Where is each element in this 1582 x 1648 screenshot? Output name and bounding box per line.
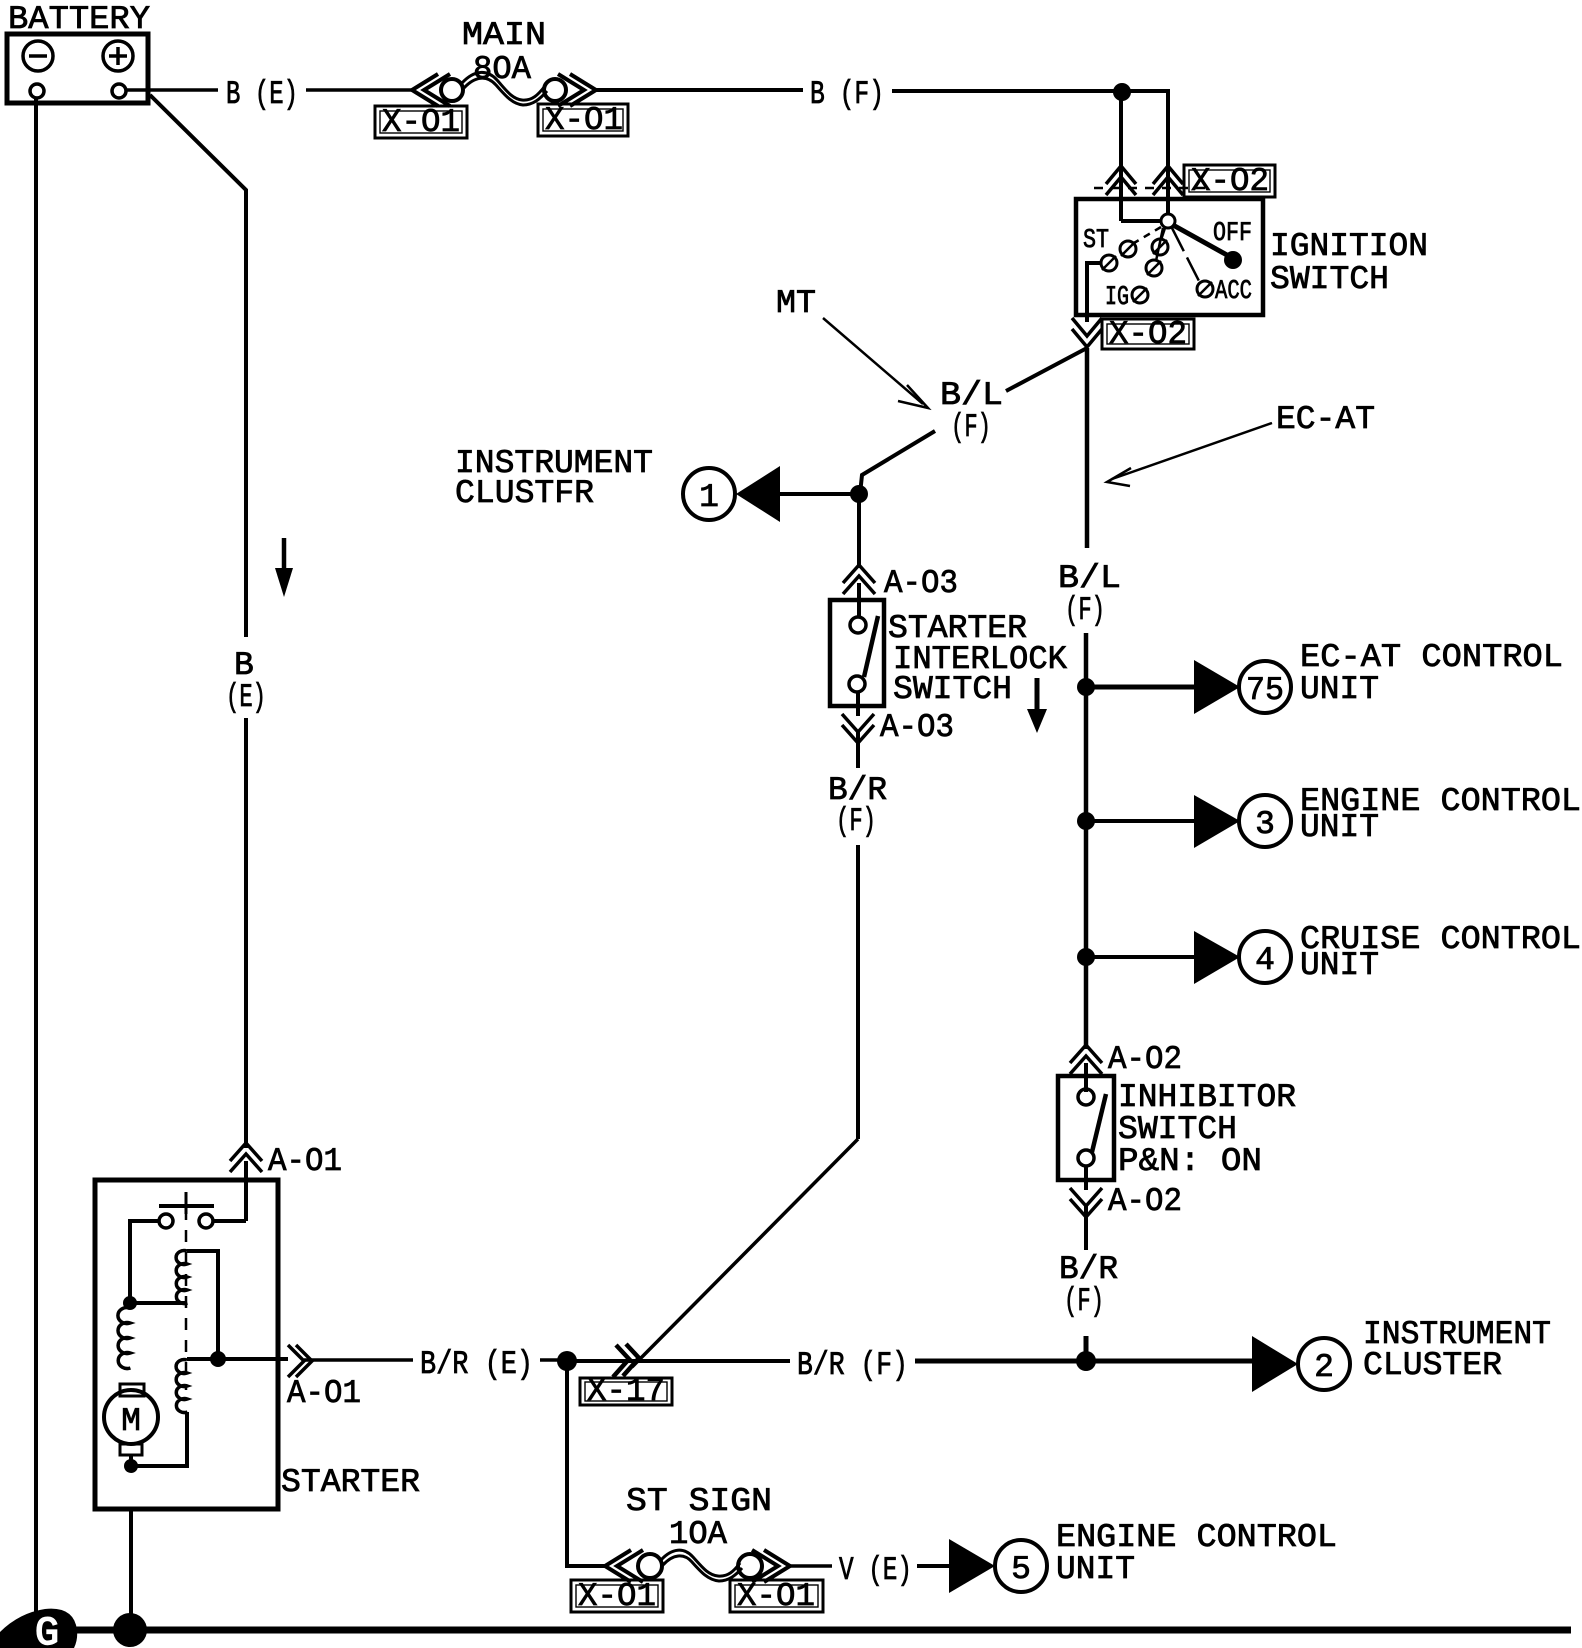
wire down from junction to ignition switch <box>1119 92 1123 221</box>
svg-text:X-O1: X-O1 <box>737 1578 815 1615</box>
svg-text:A-O2: A-O2 <box>1108 1183 1182 1220</box>
top contact <box>850 617 866 633</box>
ignition switch common node <box>1161 214 1175 228</box>
connector X-02 chevrons (bottom of ignition switch) <box>1072 318 1102 336</box>
svg-text:V (E): V (E) <box>839 1552 912 1589</box>
svg-text:X-O1: X-O1 <box>545 102 623 139</box>
svg-text:(E): (E) <box>226 679 266 716</box>
connector X-17 label box <box>580 1378 672 1405</box>
connector X-02 label box (top) <box>1184 165 1275 197</box>
node: junction EC-AT branch <box>1077 678 1095 696</box>
connector triangle cruise control unit <box>1194 931 1240 984</box>
OFF position dot <box>1224 251 1242 269</box>
wire into interlock switch <box>857 583 861 618</box>
wire coil top to right branch <box>187 1251 218 1359</box>
connector A-03 chevrons (bottom) <box>842 714 874 732</box>
svg-text:(F): (F) <box>1065 592 1105 629</box>
contact ST circle <box>1101 255 1117 271</box>
wire V(E) <box>790 1564 832 1568</box>
fuse right terminal circle <box>544 79 566 101</box>
connector A-02 chevrons (bottom) <box>1070 1188 1102 1206</box>
contact circle left <box>159 1214 173 1228</box>
wire B/R(E) <box>304 1358 413 1362</box>
wire from battery - post down left side <box>34 98 38 1629</box>
starter interlock switch box <box>830 600 884 706</box>
battery minus terminal symbol <box>23 41 53 71</box>
top contact <box>1078 1089 1094 1105</box>
wire below interlock <box>856 692 860 716</box>
solenoid plunger dashed line <box>185 1208 188 1390</box>
wire to cruise control unit <box>1086 955 1196 959</box>
brush bottom <box>120 1444 142 1455</box>
wire B/L diagonal lower <box>860 431 935 494</box>
bottom contact <box>1078 1150 1094 1166</box>
svg-text:X-17: X-17 <box>587 1373 665 1410</box>
svg-text:STARTER: STARTER <box>281 1464 420 1501</box>
wire to triangle <box>917 1564 950 1568</box>
pin circle 3 <box>1239 795 1291 847</box>
node: junction B/R(E) out <box>210 1351 226 1367</box>
svg-text:ST SIGN: ST SIGN <box>626 1483 772 1520</box>
svg-text:(F): (F) <box>951 409 991 446</box>
wire inside switch to common node <box>1121 219 1160 223</box>
connector triangle EC-AT control unit <box>1194 660 1240 714</box>
thick down arrow near EC-AT branch <box>1035 678 1040 714</box>
node: junction B/R(E)/X-17 <box>557 1351 577 1371</box>
fuse left terminal <box>638 1554 662 1578</box>
connector triangle to instrument cluster <box>736 466 780 522</box>
svg-text:UNIT: UNIT <box>1300 809 1379 846</box>
wire from starter bottom to ground <box>129 1509 133 1630</box>
svg-text:B (E): B (E) <box>226 76 298 113</box>
pin circle 2 <box>1298 1338 1350 1390</box>
node: junction at inhibitor output <box>1076 1351 1096 1371</box>
node: junction CRUISE branch <box>1077 948 1095 966</box>
svg-text:A-O1: A-O1 <box>287 1375 361 1412</box>
node: junction B(F) <box>1113 83 1131 101</box>
svg-text:UNIT: UNIT <box>1300 671 1379 708</box>
svg-text:3: 3 <box>1255 806 1275 843</box>
svg-text:5: 5 <box>1011 1551 1031 1588</box>
wire bend down at right <box>1166 89 1170 218</box>
wire B/R(F) right segment <box>915 1359 1253 1364</box>
wire into inhibitor switch <box>1084 1063 1088 1092</box>
fuse left terminal circle <box>441 79 463 101</box>
fuse right terminal <box>738 1554 762 1578</box>
MT pointer arrow <box>823 318 923 404</box>
node: junction bottom <box>124 1459 138 1473</box>
svg-text:M: M <box>121 1403 141 1440</box>
EC-AT pointer arrow <box>1112 423 1272 479</box>
svg-text:X-O1: X-O1 <box>382 104 460 141</box>
wire B/L diagonal from X-02 down-left <box>1006 348 1087 391</box>
fuse wavy element <box>462 72 545 100</box>
svg-text:G: G <box>35 1612 59 1648</box>
svg-text:ST: ST <box>1083 226 1109 256</box>
svg-text:B/R (F): B/R (F) <box>797 1347 908 1384</box>
switch arm to OFF (current position) <box>1173 225 1227 255</box>
connector A-02 chevrons (top) <box>1070 1045 1102 1063</box>
switch blade <box>1092 1094 1106 1152</box>
contact IG circle <box>1132 287 1148 303</box>
hold-in coil (lower) <box>176 1360 187 1413</box>
svg-text:SWITCH: SWITCH <box>893 671 1012 708</box>
wire resumes to junction <box>1084 1336 1089 1361</box>
wire to EC-AT control unit <box>1086 685 1196 690</box>
svg-text:CLUSTFR: CLUSTFR <box>455 475 594 512</box>
svg-text:X-O1: X-O1 <box>578 1578 656 1615</box>
brush top <box>120 1384 144 1396</box>
svg-text:8OA: 8OA <box>473 51 531 88</box>
svg-text:A-O3: A-O3 <box>880 709 954 746</box>
svg-text:1OA: 1OA <box>669 1516 727 1553</box>
wire coil bottom to junction <box>131 1412 187 1466</box>
wire to junction <box>540 1358 567 1362</box>
wire down to A-03 <box>857 494 861 568</box>
solenoid contact bar <box>159 1204 214 1208</box>
contact circle right <box>199 1214 213 1228</box>
svg-text:4: 4 <box>1255 942 1275 979</box>
svg-text:X-O2: X-O2 <box>1109 316 1187 353</box>
connector A-01 chevrons (right-pointing) <box>288 1345 304 1377</box>
svg-text:1: 1 <box>699 479 719 516</box>
inhibitor switch box <box>1058 1076 1114 1180</box>
svg-text:B/R (E): B/R (E) <box>420 1346 533 1383</box>
wire diagonal to X-17 junction <box>632 1139 858 1367</box>
contact c circle <box>1146 260 1162 276</box>
svg-text:A-O3: A-O3 <box>884 565 958 602</box>
fan line to contact b <box>1161 228 1165 240</box>
field coil (left) <box>118 1308 130 1369</box>
dashed fan line to contact a <box>1134 227 1161 243</box>
svg-text:A-O2: A-O2 <box>1108 1041 1182 1078</box>
node: junction ENGINE branch <box>1077 812 1095 830</box>
wire <box>306 88 412 92</box>
connector triangle instrument cluster 2 <box>1252 1336 1298 1392</box>
fuse wavy element <box>661 1550 740 1576</box>
fuse right connector chevrons <box>558 74 584 106</box>
connector X-02 chevrons on both wires <box>1106 166 1136 184</box>
starter box <box>95 1180 278 1509</box>
wire from battery + post diagonal down <box>150 95 246 637</box>
node: junction at B/L branch <box>850 485 868 503</box>
svg-text:MAIN: MAIN <box>462 17 546 54</box>
fuse left chevrons <box>605 1550 631 1582</box>
pin circle 1 <box>683 468 735 520</box>
wire B/R(E) out of starter <box>187 1357 288 1361</box>
fuse right chevrons <box>764 1550 790 1582</box>
pull-in coil (upper) <box>176 1251 187 1304</box>
switch blade <box>864 616 878 677</box>
svg-text:B (F): B (F) <box>810 76 884 113</box>
connector A-01 chevrons <box>230 1143 262 1161</box>
svg-text:UNIT: UNIT <box>1056 1551 1135 1588</box>
wire down <box>856 732 860 768</box>
wire B(F) <box>596 88 803 92</box>
motor M <box>104 1390 158 1444</box>
svg-text:OFF: OFF <box>1213 219 1252 249</box>
pin circle 5 <box>995 1540 1047 1592</box>
wire from junction down <box>567 1361 605 1566</box>
svg-text:UNIT: UNIT <box>1300 947 1379 984</box>
wire B(F) continues <box>892 89 1170 93</box>
svg-text:X-O2: X-O2 <box>1191 163 1269 200</box>
connector triangle engine control 5 <box>949 1539 995 1593</box>
thick down arrow on B(E) <box>282 538 287 573</box>
connector A-03 chevrons (top) <box>843 565 875 583</box>
pin circle 75 <box>1239 661 1291 713</box>
connector X-01 (bottom left) <box>571 1580 663 1612</box>
wire B/L(F) vertical lower <box>1084 633 1089 1049</box>
ST output wire inside box <box>1087 263 1101 322</box>
wire from A-01 to right contact <box>214 1219 246 1223</box>
svg-text:EC-AT: EC-AT <box>1276 401 1375 438</box>
ground bus line <box>60 1627 1571 1634</box>
connector X-01 (left) <box>375 106 467 138</box>
ground symbol G <box>0 1609 77 1648</box>
connector triangle engine control unit <box>1194 795 1240 848</box>
node: ground junction dot <box>113 1613 147 1647</box>
battery positive post <box>112 84 126 98</box>
svg-text:(F): (F) <box>836 803 876 840</box>
svg-text:MT: MT <box>776 285 816 322</box>
wire B(E) from battery to fuse <box>127 88 218 92</box>
fan line to contact c <box>1156 228 1163 261</box>
connector X-17 chevrons on diagonal <box>613 1345 629 1377</box>
wire into starter <box>244 1161 248 1221</box>
battery body <box>7 34 148 103</box>
wire B/L(F) vertical upper <box>1085 348 1090 548</box>
svg-text:CLUSTER: CLUSTER <box>1363 1347 1502 1384</box>
wire B/R(F) left segment <box>567 1359 790 1363</box>
connector X-01 (right) <box>538 104 628 136</box>
wire from triangle to junction <box>779 492 857 496</box>
fan line to ACC <box>1172 228 1200 283</box>
wire below inhibitor <box>1084 1166 1088 1190</box>
wire from left contact down <box>130 1221 158 1303</box>
wire B(E) resumes <box>244 718 248 1148</box>
wire down <box>1084 1206 1088 1250</box>
contact b circle <box>1152 239 1168 255</box>
wire B/R(F) long vertical <box>856 845 860 1139</box>
wire to engine control unit <box>1086 819 1196 823</box>
svg-text:A-O1: A-O1 <box>268 1143 342 1180</box>
svg-text:(F): (F) <box>1064 1283 1104 1320</box>
bottom contact <box>849 676 865 692</box>
svg-text:75: 75 <box>1246 672 1284 709</box>
node: junction left <box>123 1296 137 1310</box>
contact a circle <box>1120 241 1136 257</box>
connector X-02 label box (bottom) <box>1102 319 1194 349</box>
battery negative post <box>30 84 44 98</box>
contact ACC circle <box>1197 281 1213 297</box>
fuse left connector chevrons <box>412 74 438 106</box>
svg-text:SWITCH: SWITCH <box>1270 261 1389 298</box>
svg-text:ACC: ACC <box>1215 277 1252 307</box>
svg-text:P&N: ON: P&N: ON <box>1118 1143 1262 1180</box>
svg-text:2: 2 <box>1314 1349 1334 1386</box>
pin circle 4 <box>1239 931 1291 983</box>
svg-text:IG: IG <box>1105 283 1129 313</box>
ignition switch box <box>1076 199 1263 315</box>
svg-text:IGNITION: IGNITION <box>1270 228 1428 265</box>
wire junction to pull-in coil <box>130 1301 187 1305</box>
battery plus terminal symbol <box>103 41 133 71</box>
connector X-01 (bottom right) <box>730 1580 823 1612</box>
wire motor to bottom junction <box>129 1455 133 1466</box>
